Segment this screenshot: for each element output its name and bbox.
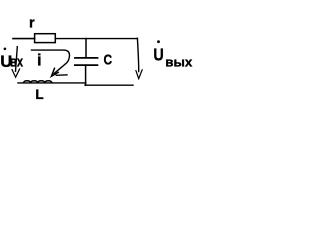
loop current arrow i bbox=[32, 50, 70, 74]
wire bottom-right bbox=[85, 84, 133, 86]
label U_in with overdot bbox=[4, 48, 7, 51]
wire bottom-left bbox=[18, 82, 86, 84]
output voltage arrow bbox=[137, 38, 138, 71]
capacitor C top stem bbox=[85, 39, 87, 58]
svg-text:i: i bbox=[37, 52, 42, 70]
svg-text:вх: вх bbox=[10, 54, 23, 70]
capacitor C bottom stem bbox=[85, 65, 87, 85]
wire top-left input bbox=[13, 38, 35, 40]
resistor r bbox=[35, 34, 56, 43]
label U_out with overdot bbox=[157, 40, 160, 43]
svg-text:L: L bbox=[35, 87, 43, 102]
input voltage arrow bbox=[16, 47, 18, 72]
svg-text:r: r bbox=[29, 16, 35, 32]
capacitor C plates bbox=[75, 57, 98, 59]
svg-text:U: U bbox=[153, 45, 163, 65]
svg-text:C: C bbox=[104, 52, 113, 69]
wire top-right bbox=[55, 38, 137, 40]
svg-text:вых: вых bbox=[165, 55, 193, 70]
inductor L coil bbox=[24, 81, 52, 83]
